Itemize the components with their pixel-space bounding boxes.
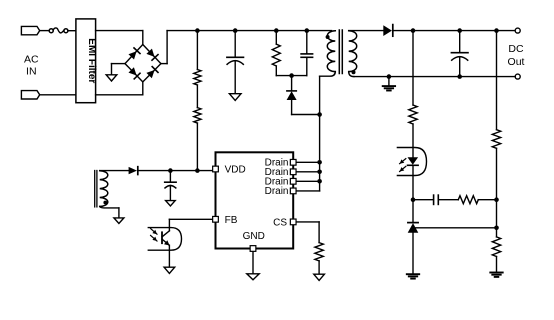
svg-text:EMI Filter: EMI Filter <box>86 38 97 83</box>
svg-text:CS: CS <box>273 217 287 228</box>
svg-text:GND: GND <box>243 231 265 242</box>
svg-text:DC: DC <box>508 43 524 55</box>
svg-text:Out: Out <box>508 56 525 68</box>
svg-text:VDD: VDD <box>225 165 246 176</box>
svg-text:FB: FB <box>225 215 238 226</box>
svg-text:AC: AC <box>24 53 39 65</box>
svg-text:IN: IN <box>26 66 37 78</box>
svg-text:Drain: Drain <box>265 186 289 197</box>
